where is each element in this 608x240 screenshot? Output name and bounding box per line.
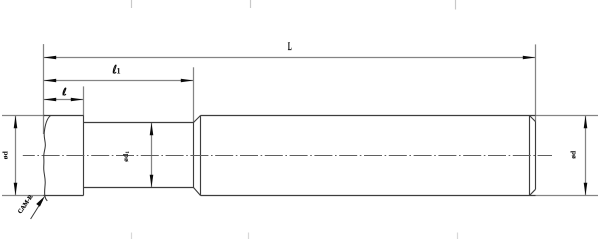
dimension line od1 (151, 123, 153, 188)
arrow od1 down (150, 175, 154, 188)
arrow l1 left (44, 79, 57, 83)
svg-text:1: 1 (117, 67, 121, 76)
head right edge (83, 116, 85, 196)
dimension line l (44, 99, 84, 101)
head bottom edge (44, 195, 84, 197)
svg-text:ød: ød (569, 150, 578, 159)
end face edge (535, 122, 537, 190)
chamfer bottom diagonal (530, 189, 536, 195)
leader arrowhead (36, 196, 45, 207)
border tick bottom 3 (457, 233, 459, 240)
arrow L left (44, 56, 57, 60)
border tick top 3 (455, 0, 457, 10)
svg-text:ød: ød (1, 151, 10, 160)
border tick bottom 2 (248, 233, 250, 240)
dimension line l1 (44, 80, 194, 82)
centerline (23, 155, 552, 157)
arrow od-left up (14, 116, 18, 129)
arrow od-right up (584, 116, 588, 129)
right od extension bottom (536, 195, 599, 197)
l right extension (83, 86, 85, 115)
svg-text:ød1: ød1 (121, 151, 131, 162)
arrow od-right down (584, 183, 588, 196)
dimension line od right (585, 116, 587, 196)
arrow l right (71, 98, 84, 102)
cone large end edge (200, 116, 202, 196)
dimension line L (44, 57, 536, 59)
arrow od1 up (150, 123, 154, 136)
body bottom edge (201, 195, 536, 197)
shank bottom edge (84, 187, 194, 189)
arrow l left (44, 98, 57, 102)
svg-text:CAM-R: CAM-R (17, 193, 35, 215)
cone top diagonal (194, 116, 201, 123)
leader line (31, 200, 43, 219)
break line (wavy) (44, 116, 51, 201)
arrow od-left down (14, 183, 18, 196)
arrow L right (523, 56, 536, 60)
left od extension bottom (2, 195, 45, 197)
label l (script ell) (63, 88, 66, 95)
right od extension top (536, 115, 599, 117)
chamfer start edge (529, 116, 531, 196)
shank top edge (84, 122, 194, 124)
dimension line od left (15, 116, 17, 196)
chamfer top diagonal (530, 116, 536, 122)
l1 right extension (193, 67, 195, 122)
left od extension top (2, 115, 45, 117)
break-plane extension line (43, 44, 45, 134)
border tick bottom 1 (131, 233, 133, 240)
body top edge (201, 115, 536, 117)
border tick top 1 (131, 0, 133, 8)
border tick top 2 (250, 0, 252, 8)
svg-text:L: L (288, 40, 292, 53)
arrow l1 right (181, 79, 194, 83)
shank end edge (193, 123, 195, 188)
head top edge (44, 115, 84, 117)
label l1 (script ell) (113, 65, 116, 73)
L right extension (535, 44, 537, 121)
cone bottom diagonal (194, 188, 201, 196)
